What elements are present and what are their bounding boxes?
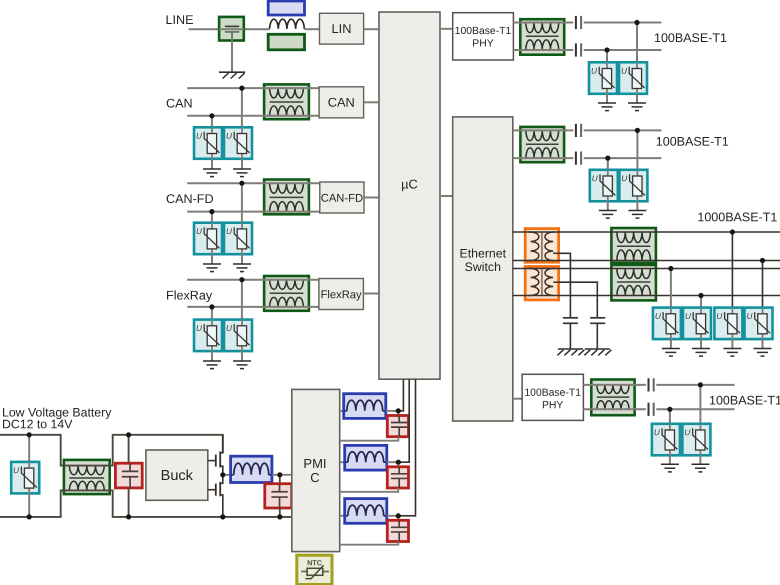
common-mode choke PHY2	[591, 380, 634, 416]
wire battery varistor top stub	[28, 435, 30, 462]
varistor CAN 2	[224, 127, 252, 159]
wire switch port high	[513, 129, 574, 131]
wire to ground 1000 4	[762, 339, 764, 348]
common-mode choke FlexRay	[264, 276, 309, 311]
wire out1 cap stub	[397, 411, 399, 416]
wire 100BASE-T1 mid low	[584, 157, 662, 159]
varistor 1000 4	[745, 308, 773, 340]
chassis ground capacitor A	[558, 348, 583, 350]
inductor PMIC out2 (blue)	[345, 445, 387, 470]
inductor on LINE	[270, 19, 305, 29]
wire 100BASE-T1 bottom high	[656, 384, 734, 386]
svg-text:100Base-T1: 100Base-T1	[455, 26, 512, 37]
svg-text:LIN: LIN	[332, 21, 352, 36]
Buck converter	[146, 450, 208, 500]
svg-text:PHY: PHY	[472, 38, 493, 49]
wire FlexRay to uC	[363, 293, 379, 295]
junction switch port low	[605, 156, 610, 161]
wire PHY1 out high	[513, 22, 573, 24]
series capacitor switch port high	[575, 124, 577, 137]
varistor FlexRay 2	[224, 320, 252, 352]
wire FlexRay low	[187, 306, 319, 308]
junction PHY2 high	[698, 382, 703, 387]
wire center tap A to capacitor	[559, 253, 571, 317]
svg-text:U: U	[654, 428, 660, 437]
svg-text:U: U	[621, 67, 627, 76]
wire out1 return	[340, 437, 399, 441]
varistor battery	[11, 462, 39, 494]
chassis ground (LINE filter)	[219, 71, 245, 73]
junction 1000BASE-T1 line4	[698, 293, 703, 298]
transformer 1000BASE-T1 B	[525, 267, 559, 300]
wire to ground FlexRay 1	[211, 351, 213, 361]
wire 100BASE-T1 mid high	[584, 129, 662, 131]
svg-text:1000BASE-T1: 1000BASE-T1	[697, 210, 777, 224]
earth ground 1000 3	[723, 348, 741, 350]
svg-text:µC: µC	[401, 176, 418, 191]
earth ground switch port 2	[628, 210, 646, 212]
wire battery varistor bottom stub	[28, 493, 30, 517]
svg-text:100BASE-T1: 100BASE-T1	[709, 393, 780, 407]
wire center tap B to capacitor	[559, 282, 598, 317]
power choke through top	[64, 465, 110, 467]
wire varistor stub PHY1 high	[636, 23, 638, 63]
wire CAN-FD to uC	[364, 197, 379, 199]
svg-text:U: U	[685, 312, 691, 321]
wire CAN high	[187, 87, 319, 89]
svg-text:U: U	[226, 132, 232, 141]
wire CAN to uC	[364, 101, 379, 103]
PMIC	[292, 389, 340, 551]
wire LINE input	[189, 28, 270, 30]
junction buck output	[277, 472, 282, 477]
wire varistor stub PHY2 high	[699, 385, 701, 424]
svg-text:U: U	[226, 227, 232, 236]
wire varistor stub CAN low	[211, 116, 213, 128]
svg-text:NTC: NTC	[307, 558, 322, 567]
wire gate high-side	[208, 460, 216, 462]
earth ground PHY1 1	[598, 102, 616, 104]
junction CAN-FD low	[209, 209, 214, 214]
svg-text:Switch: Switch	[465, 260, 501, 274]
wire 100BASE-T1 bottom low	[656, 408, 734, 410]
wire to ground switch port 2	[636, 201, 638, 210]
varistor CAN 1	[194, 127, 222, 159]
series capacitor switch port low	[575, 152, 577, 165]
power rail bottom	[0, 490, 64, 517]
earth ground FlexRay 1	[203, 360, 221, 362]
junction FlexRay high	[239, 277, 244, 282]
wire varistor stub CAN high	[241, 88, 243, 127]
LIN transceiver	[320, 13, 364, 44]
svg-text:U: U	[655, 312, 661, 321]
common-mode choke 1000BASE-T1 A	[611, 228, 656, 263]
CAN transceiver	[319, 87, 364, 118]
junction out2	[396, 460, 401, 465]
wire inductor to PMIC	[272, 474, 292, 476]
svg-text:CAN: CAN	[166, 96, 193, 110]
junction input capacitor top	[126, 432, 131, 437]
wire to ground PHY2 2	[699, 455, 701, 464]
wire gate low-side	[208, 489, 216, 491]
transistor high-side FET	[216, 435, 223, 475]
capacitor buck output (red)	[265, 484, 292, 508]
common-mode choke CAN	[264, 84, 309, 119]
svg-text:U: U	[591, 67, 597, 76]
common-mode choke CAN-FD	[264, 180, 309, 215]
svg-text:100Base-T1: 100Base-T1	[524, 388, 581, 399]
wire to ground FlexRay 2	[241, 351, 243, 361]
svg-text:C: C	[310, 470, 319, 485]
wire to chassis ground	[231, 41, 233, 73]
svg-text:CAN-FD: CAN-FD	[166, 192, 214, 206]
wire varistor stub 1000 line2	[762, 261, 764, 308]
junction out1	[396, 408, 401, 413]
capacitor out2 (red)	[387, 467, 408, 488]
junction input capacitor bottom	[126, 514, 131, 519]
svg-text:U: U	[746, 312, 752, 321]
wire varistor stub CAN-FD high	[241, 183, 243, 223]
junction CAN-FD high	[239, 181, 244, 186]
svg-text:U: U	[621, 174, 627, 183]
wire PHY1 out low	[513, 49, 573, 51]
junction PHY2 low	[667, 407, 672, 412]
svg-text:Ethernet: Ethernet	[460, 246, 507, 260]
wire CAN-FD high	[187, 182, 320, 184]
power rail bottom after choke	[110, 490, 292, 517]
inductor buck (blue)	[231, 456, 272, 482]
wire PMIC out3	[340, 515, 345, 517]
varistor PHY1 1	[589, 62, 617, 94]
wire to ground 1000 3	[731, 339, 733, 348]
varistor 1000 3	[714, 308, 742, 340]
common-mode choke power input	[64, 460, 110, 494]
wire out2 return	[340, 488, 399, 492]
transformer 1000BASE-T1 A	[525, 229, 559, 263]
wire varistor stub PHY1 low	[606, 50, 608, 62]
svg-text:U: U	[196, 132, 202, 141]
feedthrough capacitor on LINE	[219, 17, 244, 41]
wire FET to inductor	[223, 474, 231, 476]
wire 1000BASE-T1 line 4	[513, 295, 780, 297]
wire out2 cap stub	[397, 462, 399, 467]
junction 1000BASE-T1 line1	[730, 229, 735, 234]
varistor CAN-FD 2	[224, 223, 252, 255]
wire uC supply 3	[398, 379, 415, 516]
junction FET source rail	[220, 514, 225, 519]
wire to ground 1000 2	[700, 339, 702, 348]
svg-text:PMI: PMI	[303, 456, 326, 471]
svg-text:CAN: CAN	[328, 95, 355, 110]
varistor 1000 2	[683, 308, 711, 340]
wire LIN to uC	[364, 28, 379, 30]
wire uC to PHY1	[440, 28, 453, 30]
wire PHY2 out high	[583, 384, 646, 386]
earth ground CAN-FD 1	[203, 263, 221, 265]
wire varistor stub 1000 line3	[670, 269, 672, 308]
wire varistor stub 1000 line1	[731, 232, 733, 308]
earth ground 1000 4	[754, 348, 772, 350]
common-mode choke switch port	[520, 127, 564, 162]
wire switch port low	[513, 157, 574, 159]
junction out3	[396, 513, 401, 518]
wire switch to PHY2	[513, 398, 522, 400]
wire out2 to node	[387, 461, 399, 463]
wire out3 to node	[387, 515, 399, 517]
wire CAN low	[187, 115, 319, 117]
svg-text:FlexRay: FlexRay	[166, 288, 213, 302]
svg-text:PHY: PHY	[542, 400, 563, 411]
100Base-T1 PHY bottom	[522, 374, 583, 420]
wire input capacitor bottom stub	[128, 488, 130, 517]
junction battery varistor bottom	[27, 514, 32, 519]
junction switch port high	[635, 128, 640, 133]
wire PHY2 out low	[583, 408, 646, 410]
varistor 1000 1	[653, 308, 681, 340]
svg-text:U: U	[196, 324, 202, 333]
wire capacitor A to ground	[569, 323, 571, 349]
ferrite bead option box (green)	[268, 34, 304, 50]
wire to ground CAN 1	[211, 159, 213, 169]
capacitor out3 (red)	[387, 520, 408, 541]
junction 1000BASE-T1 line2	[760, 258, 765, 263]
earth ground PHY2 2	[691, 463, 709, 465]
varistor PHY2 1	[652, 424, 680, 456]
wire inductor to LIN	[304, 28, 319, 30]
capacitor power input (red)	[115, 463, 142, 488]
wire to ground PHY2 1	[669, 455, 671, 464]
wire 1000BASE-T1 line 3	[513, 268, 780, 270]
power rail top	[0, 435, 64, 466]
junction PHY1 high	[634, 20, 639, 25]
wire to ground CAN 2	[241, 159, 243, 169]
earth ground CAN 2	[233, 168, 251, 170]
svg-text:U: U	[196, 227, 202, 236]
varistor switch port 2	[619, 170, 647, 202]
wire varistor stub CAN-FD low	[211, 212, 213, 223]
wire PMIC out1	[340, 410, 344, 412]
wire to ground PHY1 1	[606, 94, 608, 103]
wire out3 return	[340, 542, 399, 545]
wire FlexRay high	[187, 279, 319, 281]
series capacitor PHY2 low	[648, 403, 650, 416]
wire varistor stub switch port low	[607, 158, 609, 170]
svg-text:U: U	[226, 324, 232, 333]
Ethernet switch	[453, 117, 513, 421]
wire buck cap to rail	[279, 508, 281, 517]
earth ground switch port 1	[599, 210, 617, 212]
NTC thermistor	[297, 555, 332, 584]
wire varistor stub FlexRay low	[211, 307, 213, 320]
common-mode choke 1000BASE-T1 B	[611, 265, 656, 301]
svg-text:100BASE-T1: 100BASE-T1	[656, 135, 729, 149]
wire out1 to node	[386, 410, 399, 412]
series capacitor PHY2 high	[648, 378, 650, 391]
svg-text:LINE: LINE	[165, 13, 193, 27]
common-mode choke PHY1	[520, 19, 564, 55]
svg-text:DC12 to 14V: DC12 to 14V	[2, 417, 73, 431]
junction CAN high	[239, 86, 244, 91]
wire to ground PHY1 2	[636, 94, 638, 103]
junction PHY1 low	[604, 47, 609, 52]
wire CAN-FD low	[187, 211, 320, 213]
series capacitor PHY1 high	[575, 16, 577, 29]
wire varistor stub switch port high	[636, 130, 638, 169]
wire to ground 1000 1	[670, 339, 672, 348]
earth ground CAN 1	[203, 168, 221, 170]
wire capacitor B to ground	[596, 323, 598, 349]
series capacitor PHY1 low	[575, 43, 577, 56]
CAN-FD transceiver	[320, 182, 364, 213]
junction buck cap rail	[277, 514, 282, 519]
power choke through bottom	[64, 489, 110, 491]
capacitor center tap A	[563, 317, 578, 319]
svg-text:CAN-FD: CAN-FD	[321, 193, 363, 205]
wire varistor stub PHY2 low	[669, 409, 671, 424]
wire to ground CAN-FD 1	[211, 254, 213, 264]
junction battery varistor top	[27, 432, 32, 437]
wire out3 cap stub	[397, 516, 399, 521]
svg-text:U: U	[592, 174, 598, 183]
junction FET midpoint	[220, 472, 225, 477]
microcontroller uC	[379, 12, 440, 379]
wire 1000BASE-T1 line 2	[513, 260, 780, 262]
wire to ground CAN-FD 2	[241, 254, 243, 264]
wire input capacitor top stub	[128, 435, 130, 463]
earth ground PHY2 1	[661, 463, 679, 465]
chassis ground capacitor B	[585, 348, 610, 350]
earth ground PHY1 2	[628, 102, 646, 104]
wire PMIC out2	[340, 461, 345, 463]
wire uC to Ethernet switch	[440, 195, 453, 197]
capacitor out1 (red)	[387, 416, 408, 437]
capacitor center tap B	[590, 317, 605, 319]
junction 1000BASE-T1 line3	[668, 266, 673, 271]
svg-text:FlexRay: FlexRay	[321, 289, 362, 301]
ferrite bead option box (blue)	[268, 1, 304, 15]
varistor PHY1 2	[619, 62, 647, 94]
100Base-T1 PHY top	[453, 13, 514, 60]
svg-text:Buck: Buck	[161, 468, 194, 484]
varistor PHY2 2	[682, 424, 710, 456]
inductor PMIC out1 (blue)	[344, 394, 386, 419]
wire 100BASE-T1 top high	[584, 22, 662, 24]
svg-text:U: U	[716, 312, 722, 321]
earth ground 1000 1	[662, 348, 680, 350]
wire uC supply 1	[398, 379, 403, 411]
wire to ground switch port 1	[607, 201, 609, 210]
power rail top after choke	[110, 435, 223, 466]
wire 1000BASE-T1 line 1	[513, 231, 780, 233]
varistor switch port 1	[590, 170, 618, 202]
varistor CAN-FD 1	[194, 223, 222, 255]
wire 100BASE-T1 top low	[584, 49, 662, 51]
svg-text:100BASE-T1: 100BASE-T1	[654, 31, 727, 45]
junction CAN low	[209, 113, 214, 118]
wire buck output cap stub	[279, 475, 281, 484]
svg-text:U: U	[684, 428, 690, 437]
wire varistor stub 1000 line4	[700, 296, 702, 308]
svg-text:U: U	[13, 466, 19, 475]
transistor low-side FET	[216, 475, 223, 517]
varistor FlexRay 1	[194, 320, 222, 352]
earth ground 1000 2	[692, 348, 710, 350]
junction FlexRay low	[209, 304, 214, 309]
earth ground FlexRay 2	[233, 360, 251, 362]
wire uC supply 2	[398, 379, 409, 462]
wire varistor stub FlexRay high	[241, 280, 243, 320]
FlexRay transceiver	[319, 279, 364, 310]
inductor PMIC out3 (blue)	[345, 499, 387, 524]
earth ground CAN-FD 2	[233, 263, 251, 265]
